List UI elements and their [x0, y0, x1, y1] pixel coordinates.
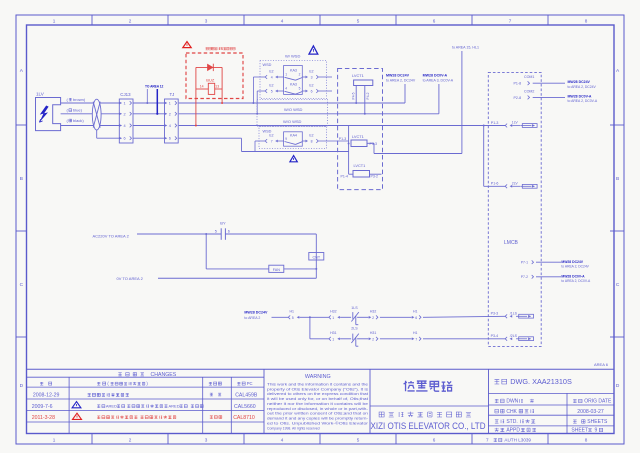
- svg-text:E2: E2: [269, 134, 273, 138]
- svg-text:to AREA 2, DC0V-A: to AREA 2, DC0V-A: [568, 99, 598, 103]
- svg-text:4: 4: [124, 124, 126, 128]
- svg-text:KA4: KA4: [290, 133, 297, 137]
- svg-text:2: 2: [129, 18, 132, 23]
- svg-text:H31: H31: [370, 331, 376, 335]
- svg-text:CNT: CNT: [313, 255, 321, 259]
- svg-text:blue): blue): [73, 107, 83, 112]
- svg-text:P3-4: P3-4: [491, 334, 499, 338]
- svg-text:5: 5: [215, 230, 217, 234]
- svg-text:2008-03-27: 2008-03-27: [577, 409, 604, 415]
- svg-text:LVCT1: LVCT1: [354, 163, 366, 168]
- svg-text:CJ13: CJ13: [120, 92, 131, 97]
- svg-text:out the prior written consent: out the prior written consent of Otis;an…: [267, 412, 368, 416]
- svg-text:P1-8: P1-8: [514, 82, 522, 86]
- svg-text:ORIG DATE: ORIG DATE: [584, 399, 612, 405]
- svg-text:brown): brown): [73, 97, 86, 102]
- svg-text:2: 2: [129, 438, 132, 443]
- svg-text:W/ WSD: W/ WSD: [285, 54, 300, 59]
- svg-text:FAN: FAN: [273, 268, 281, 272]
- svg-text:3: 3: [311, 75, 313, 79]
- svg-text:1: 1: [53, 18, 56, 23]
- svg-text:P7-1: P7-1: [521, 261, 528, 265]
- svg-text:delivered to others on the exp: delivered to others on the express condi…: [267, 392, 368, 396]
- svg-text:B: B: [616, 176, 619, 182]
- svg-text:1LV: 1LV: [36, 92, 45, 97]
- svg-text:4: 4: [281, 438, 284, 443]
- svg-text:8: 8: [585, 438, 588, 443]
- svg-text:LVCT1: LVCT1: [352, 73, 364, 78]
- svg-text:TO AREA 12: TO AREA 12: [145, 85, 164, 89]
- svg-text:3: 3: [205, 18, 208, 23]
- svg-text:DWN: DWN: [506, 399, 518, 405]
- svg-text:P3-2: P3-2: [371, 175, 378, 179]
- svg-text:C: C: [616, 282, 620, 288]
- svg-text:W/O WSD: W/O WSD: [283, 119, 302, 124]
- svg-text:3: 3: [205, 438, 208, 443]
- svg-text:P1-3: P1-3: [491, 121, 499, 125]
- svg-text:1LS: 1LS: [351, 306, 358, 310]
- svg-text:H31: H31: [330, 331, 336, 335]
- svg-text:BUZ: BUZ: [206, 77, 215, 82]
- svg-text:0V TO AREA 2: 0V TO AREA 2: [117, 276, 144, 281]
- svg-text:2011-3-28: 2011-3-28: [32, 415, 55, 421]
- svg-text:This work and the information: This work and the information it contain…: [267, 382, 368, 386]
- svg-text:DWG. XAA21310S: DWG. XAA21310S: [510, 377, 572, 386]
- svg-text:5: 5: [292, 316, 294, 320]
- svg-text:WARNING: WARNING: [305, 374, 331, 380]
- svg-text:BY: BY: [220, 221, 226, 226]
- svg-text:to AREA 3, DC0V-A: to AREA 3, DC0V-A: [423, 78, 454, 82]
- svg-text:1: 1: [53, 438, 56, 443]
- svg-text:COM2: COM2: [524, 90, 534, 94]
- svg-text:1: 1: [124, 102, 126, 106]
- svg-text:1LV: 1LV: [512, 121, 519, 125]
- svg-text:2: 2: [372, 316, 374, 320]
- svg-text:7: 7: [415, 337, 417, 341]
- svg-text:B: B: [20, 176, 23, 182]
- svg-text:1: 1: [285, 72, 287, 76]
- svg-text:P1-3: P1-3: [339, 137, 346, 141]
- svg-text:MW28 DC24V: MW28 DC24V: [244, 311, 268, 315]
- svg-text:6: 6: [228, 230, 230, 234]
- svg-text:Company 1998. All rights rese: Company 1998. All rights reserved: [267, 426, 320, 430]
- svg-text:7: 7: [509, 18, 512, 23]
- svg-text:CHANGES: CHANGES: [151, 372, 177, 378]
- svg-text:MW28 DC0V-A: MW28 DC0V-A: [561, 275, 585, 279]
- svg-text:P4-5: P4-5: [352, 92, 356, 99]
- svg-text:to AREA 2, DC24V: to AREA 2, DC24V: [386, 78, 416, 82]
- svg-text:black): black): [73, 118, 84, 123]
- svg-text:P1-6: P1-6: [491, 182, 499, 186]
- svg-text:6: 6: [433, 438, 436, 443]
- svg-text:SHEET: SHEET: [571, 428, 588, 434]
- svg-text:AUTH L3039: AUTH L3039: [504, 438, 531, 443]
- svg-text:to AREA 2, DC24V: to AREA 2, DC24V: [568, 85, 597, 89]
- svg-text:P7-2: P7-2: [521, 275, 528, 279]
- svg-text:/1LS: /1LS: [510, 312, 518, 316]
- svg-text:2: 2: [372, 337, 374, 341]
- svg-text:2LS: 2LS: [351, 327, 358, 331]
- svg-text:8: 8: [585, 18, 588, 23]
- svg-text:TJ: TJ: [170, 92, 175, 97]
- svg-text:6: 6: [415, 316, 417, 320]
- svg-text:W/O WSD: W/O WSD: [284, 107, 303, 112]
- svg-text:2LV: 2LV: [512, 182, 519, 186]
- svg-text:LVCT1: LVCT1: [352, 134, 364, 139]
- svg-text:P2-8: P2-8: [514, 96, 522, 100]
- svg-text:6: 6: [169, 137, 171, 141]
- svg-text:6: 6: [311, 89, 313, 93]
- svg-text:9: 9: [285, 137, 287, 141]
- svg-text:4: 4: [281, 18, 284, 23]
- svg-text:STD.: STD.: [506, 419, 517, 425]
- svg-text:KA3: KA3: [290, 68, 297, 72]
- svg-text:AREA 6: AREA 6: [594, 362, 609, 367]
- svg-text:reproduced or disclosed, in wh: reproduced or disclosed, in whole or in …: [267, 407, 368, 411]
- svg-text:property of Otis Elevator Com: property of Otis Elevator Company (“Otis…: [267, 387, 368, 391]
- svg-text:ARED: ARED: [106, 404, 117, 409]
- svg-text:H1: H1: [413, 310, 418, 314]
- svg-text:it will be used only for, or o: it will be used only for, or on behalf o…: [267, 397, 368, 401]
- svg-text:5: 5: [271, 89, 273, 93]
- svg-text:COM1: COM1: [524, 75, 534, 79]
- svg-text:/2LS: /2LS: [510, 334, 518, 338]
- svg-text:1: 1: [332, 337, 334, 341]
- svg-text:E2: E2: [309, 70, 313, 74]
- svg-text:E2: E2: [309, 84, 313, 88]
- svg-text:P3-3: P3-3: [370, 142, 377, 146]
- svg-text:E2: E2: [309, 134, 313, 138]
- svg-text:2009-7-6: 2009-7-6: [32, 404, 53, 410]
- svg-text:CAL5660: CAL5660: [234, 404, 256, 410]
- svg-text:P4-2: P4-2: [366, 92, 370, 99]
- svg-text:D: D: [616, 383, 620, 389]
- svg-text:C: C: [20, 282, 24, 288]
- svg-text:5: 5: [357, 18, 360, 23]
- svg-text:MW28 DC0V-A: MW28 DC0V-A: [568, 94, 592, 98]
- svg-text:to AREA 2, DC24V: to AREA 2, DC24V: [561, 265, 589, 269]
- svg-text:4: 4: [169, 124, 171, 128]
- svg-text:P3-3: P3-3: [491, 312, 499, 316]
- svg-text:LMCB: LMCB: [504, 240, 519, 246]
- svg-text:MW28 DC24V: MW28 DC24V: [386, 73, 410, 77]
- svg-text:APPD: APPD: [506, 428, 520, 434]
- svg-text:2008-12-29: 2008-12-29: [33, 393, 60, 399]
- svg-text:5: 5: [357, 438, 360, 443]
- svg-text:SHEETS: SHEETS: [587, 419, 608, 425]
- svg-text:ed to Otis. Unpublished: ed to Otis. Unpublished Work-©Otis Eleva…: [267, 421, 369, 425]
- svg-text:PC: PC: [247, 381, 253, 386]
- svg-text:13: 13: [215, 85, 219, 89]
- svg-text:4: 4: [285, 86, 287, 90]
- svg-text:WSD: WSD: [263, 63, 272, 67]
- svg-text:H1: H1: [290, 310, 295, 314]
- svg-text:AC220V TO AREA 2: AC220V TO AREA 2: [93, 233, 130, 238]
- svg-text:7: 7: [486, 438, 489, 443]
- svg-text:E2: E2: [269, 84, 273, 88]
- svg-text:CHK: CHK: [506, 409, 517, 415]
- svg-text:to AREA 2, DC0V-A: to AREA 2, DC0V-A: [561, 279, 591, 283]
- svg-text:MW28 DC0V-A: MW28 DC0V-A: [423, 73, 448, 77]
- svg-text:2: 2: [169, 112, 171, 116]
- svg-text:5: 5: [299, 86, 301, 90]
- svg-text:MW28 DC24V: MW28 DC24V: [568, 80, 591, 84]
- svg-text:D: D: [20, 383, 24, 389]
- svg-text:neither it nor the informatio: neither it nor the information it contai…: [267, 402, 368, 406]
- svg-text:ARED: ARED: [168, 404, 179, 409]
- svg-text:H32: H32: [330, 310, 336, 314]
- svg-text:H1: H1: [413, 331, 418, 335]
- svg-text:CAL8710: CAL8710: [233, 415, 255, 421]
- svg-text:2: 2: [299, 72, 301, 76]
- svg-text:XIZI OTIS ELEVATOR CO., LTD: XIZI OTIS ELEVATOR CO., LTD: [371, 420, 486, 431]
- svg-text:6: 6: [124, 137, 126, 141]
- svg-text:H32: H32: [370, 310, 376, 314]
- svg-text:4: 4: [271, 75, 273, 79]
- svg-text:14: 14: [200, 85, 204, 89]
- svg-text:demand it and any copies will: demand it and any copies will be promptl…: [267, 417, 368, 421]
- svg-text:MW28 DC24V: MW28 DC24V: [561, 260, 583, 264]
- svg-text:9: 9: [595, 428, 598, 434]
- svg-text:2: 2: [124, 112, 126, 116]
- svg-text:6: 6: [433, 18, 436, 23]
- svg-text:1: 1: [332, 316, 334, 320]
- svg-text:1: 1: [169, 102, 171, 106]
- svg-text:E2: E2: [269, 70, 273, 74]
- svg-text:to AREA 15, HL1: to AREA 15, HL1: [452, 46, 479, 50]
- svg-text:7: 7: [271, 139, 273, 143]
- svg-text:CAL459B: CAL459B: [235, 393, 258, 399]
- svg-text:KA3: KA3: [290, 82, 297, 86]
- svg-text:to AREA 2: to AREA 2: [244, 316, 260, 320]
- svg-text:P1-4: P1-4: [341, 175, 348, 179]
- svg-text:8: 8: [311, 139, 313, 143]
